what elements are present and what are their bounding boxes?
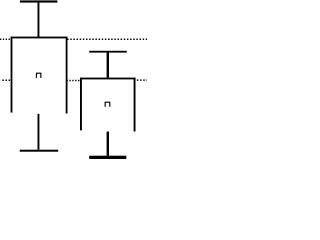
- dotted gridline 2 middle segment: [67, 80, 80, 82]
- right plot top whisker cap: [89, 51, 127, 53]
- left plot top whisker cap: [20, 0, 58, 2]
- left plot bottom whisker cap: [20, 150, 59, 152]
- dotted gridline 2 left segment: [2, 79, 10, 81]
- left n glyph: [36, 73, 40, 78]
- right box right side: [134, 78, 136, 132]
- right box top edge: [80, 78, 136, 80]
- left box right side: [66, 37, 68, 114]
- dotted gridline 2 right segment: [137, 79, 147, 81]
- right box left side: [80, 78, 82, 131]
- dotted gridline 1 right segment: [67, 38, 147, 40]
- right plot lower whisker stem: [107, 132, 109, 156]
- dotted gridline 1 left segment: [0, 38, 10, 40]
- right plot upper whisker stem: [107, 53, 109, 78]
- right n glyph: [105, 102, 110, 107]
- left box top edge: [11, 37, 68, 39]
- right plot bottom whisker cap: [89, 156, 126, 159]
- left plot lower whisker stem: [38, 114, 40, 150]
- left box left side: [11, 37, 13, 113]
- left plot upper whisker stem: [38, 3, 40, 37]
